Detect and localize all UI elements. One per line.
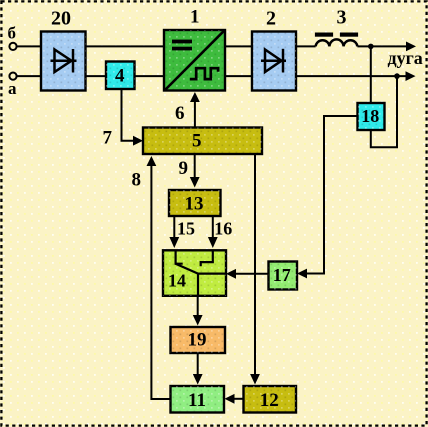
block 4: [106, 62, 135, 90]
svg-text:8: 8: [132, 170, 142, 191]
terminal а circle: [9, 73, 16, 80]
wire block 1 to block 2 (bottom): [225, 75, 252, 77]
arrowhead 9 into block 13: [190, 177, 200, 188]
wire 16 from block 13 to block 14: [212, 216, 214, 239]
svg-text:1: 1: [190, 7, 200, 28]
wire block 14 to block 19: [197, 296, 199, 316]
svg-text:4: 4: [115, 66, 125, 87]
block 18: [358, 103, 385, 130]
svg-text:19: 19: [188, 330, 207, 351]
svg-text:18: 18: [361, 106, 379, 126]
wire 7 from block 4 to block 5: [122, 89, 135, 141]
arrowhead into block 17: [297, 269, 307, 279]
arrowhead into block 12: [250, 374, 260, 385]
wire terminal а to block 20: [17, 75, 41, 77]
block 5: [143, 128, 262, 155]
svg-text:20: 20: [51, 8, 71, 30]
arrowhead into block 11: [225, 394, 235, 404]
inverter symbol: pulse waveform: [190, 68, 218, 79]
block 12: [244, 386, 297, 413]
junction node top: [368, 44, 374, 50]
bottom output wire to arc: [296, 75, 407, 77]
svg-text:11: 11: [188, 390, 206, 411]
svg-text:6: 6: [175, 103, 185, 124]
svg-text:12: 12: [260, 390, 279, 411]
wire 8 from block 11 up to block 5: [151, 165, 170, 399]
diode symbol in block 2: [261, 49, 286, 73]
inverter symbol: diagonal: [166, 31, 225, 90]
arrowhead 7 into block 5: [133, 136, 143, 146]
block 19: [171, 327, 226, 353]
junction node bottom: [394, 73, 400, 79]
wire from block 5 down to block 12: [254, 154, 256, 375]
svg-text:15: 15: [177, 219, 195, 239]
wire 15 from block 13 to block 14: [173, 216, 175, 239]
block 13: [169, 190, 221, 216]
wire block 20 to block 1 (top): [86, 45, 165, 47]
block 1 inverter: [164, 7, 225, 91]
inductor 3 coil: [316, 39, 358, 46]
arrowhead 15 into block 14: [169, 237, 179, 248]
arrowhead into block 14: [226, 269, 236, 279]
svg-text:б: б: [8, 23, 17, 42]
svg-text:3: 3: [337, 7, 347, 29]
wire 9 from block 5 down to block 13: [194, 154, 196, 179]
arrowhead into block 19: [193, 315, 203, 326]
svg-text:17: 17: [273, 265, 291, 285]
diode symbol in block 20: [51, 49, 77, 73]
top output wire to arc: [357, 45, 409, 47]
wire 6 from block 5 up to block 1: [194, 101, 196, 128]
wire block 12 to block 11: [233, 398, 244, 400]
block 11: [171, 386, 225, 413]
svg-text:7: 7: [103, 127, 113, 148]
bottom output arrowhead: [406, 71, 416, 81]
svg-text:а: а: [8, 79, 17, 98]
wire block 4 to block 1: [135, 75, 165, 77]
arrowhead 6 into block 1: [190, 92, 200, 102]
block 20 rectifier: [41, 8, 86, 91]
wire bottom junction down and left to block 18 bottom: [371, 76, 397, 147]
wire block 18 left down to block 17: [305, 116, 358, 274]
svg-text:5: 5: [192, 130, 202, 151]
svg-text:9: 9: [179, 158, 189, 179]
switch symbol in block 14: [176, 251, 226, 296]
arrowhead 8 into block 5: [147, 156, 157, 166]
block 14 commutator: [163, 250, 226, 295]
svg-text:2: 2: [266, 8, 276, 30]
wire block 19 to block 11: [197, 353, 199, 375]
arrowhead 16 into block 14: [208, 237, 218, 248]
wire terminal б to block 20: [17, 45, 41, 47]
wire block 20 to block 4 (bottom): [86, 75, 107, 77]
block 2 output rectifier: [252, 8, 296, 91]
arrowhead into block 11: [193, 374, 203, 385]
svg-text:13: 13: [185, 194, 204, 215]
inductor 3 core bars: [315, 33, 358, 37]
terminal б circle: [9, 43, 16, 50]
wire top junction down to block 18: [370, 46, 372, 103]
top output arrowhead: [406, 42, 416, 52]
inverter symbol: = sign: [172, 40, 192, 51]
svg-text:16: 16: [214, 219, 232, 239]
block 17: [269, 262, 298, 290]
svg-text:14: 14: [168, 270, 186, 290]
wire block 2 to inductor 3: [296, 45, 316, 47]
wire block 17 to block 14: [234, 273, 269, 275]
svg-text:дуга: дуга: [388, 48, 423, 68]
wire block 1 to block 2 (top): [225, 45, 252, 47]
